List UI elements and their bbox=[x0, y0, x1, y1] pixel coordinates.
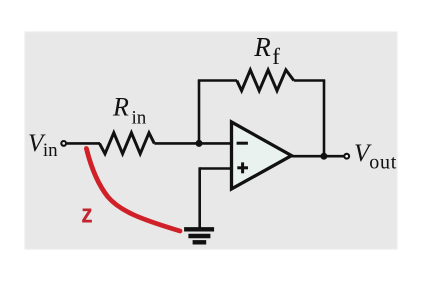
node junction at inverting input bbox=[196, 140, 203, 147]
svg-text:in: in bbox=[132, 108, 147, 129]
wire noninverting input bbox=[200, 167, 232, 170]
op-amp plus sign bbox=[237, 166, 248, 169]
annotation: red impedance curve bbox=[86, 149, 180, 232]
wire Rin to inverting input bbox=[154, 142, 232, 145]
wire top left to Rf bbox=[198, 79, 237, 82]
wire op-amp output bbox=[292, 155, 344, 158]
wire Rf to right riser bbox=[294, 79, 325, 82]
resistor Rf bbox=[237, 70, 294, 91]
output terminal bbox=[344, 154, 349, 159]
svg-text:R: R bbox=[253, 32, 271, 62]
ground bbox=[184, 229, 214, 242]
svg-text:R: R bbox=[112, 93, 129, 122]
input terminal bbox=[61, 141, 66, 146]
svg-text:f: f bbox=[272, 44, 280, 69]
wire input to Rin bbox=[67, 142, 100, 145]
svg-text:z: z bbox=[81, 199, 92, 229]
svg-text:out: out bbox=[369, 152, 397, 174]
op-amp U1 bbox=[232, 122, 292, 189]
panel background bbox=[25, 32, 398, 250]
wire right riser down to output bbox=[323, 81, 326, 157]
wire down to ground bbox=[198, 167, 201, 228]
op-amp minus sign bbox=[237, 142, 248, 145]
resistor Rin bbox=[100, 133, 155, 154]
wire feedback riser left bbox=[198, 81, 201, 144]
svg-text:in: in bbox=[43, 140, 58, 161]
node junction at output bbox=[320, 153, 327, 160]
